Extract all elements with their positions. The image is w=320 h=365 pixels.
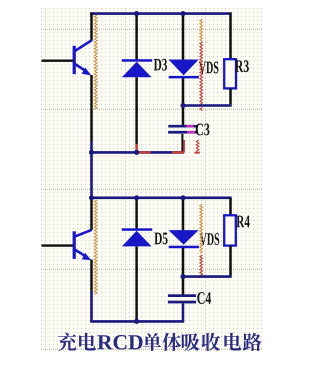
node: top rail / D3 junction [134,11,139,16]
wire: top rail (cell 2) [90,197,231,200]
resistor R4 box [224,215,236,245]
wire: D3 branch upper (cell 1) [135,12,138,59]
wire: R3 top lead [229,12,232,59]
fine grid accent rows/columns [41,29,263,31]
node: rail / D5 junction [134,195,139,200]
wire: Q1 emitter pin down [90,75,93,141]
label VDS (cell 1) [199,62,206,74]
wire: red highlighted segment above mid-rail junction [135,144,138,150]
snubber diode body (pointing down, cell 1) [169,60,199,76]
capacitor C3 bottom plate [168,131,197,134]
label D5 [154,233,161,245]
wire: Q1 base stub [42,60,74,62]
snubber diode body (pointing down, cell 2) [169,230,199,245]
transistor Q2 emitter arrow [82,253,91,260]
wire: snubber diode to mid node [182,78,185,104]
wire: Q1 collector pin [90,12,93,40]
diode D3 cathode bar [122,59,152,62]
capacitor C4 bottom plate [168,301,196,304]
node: D3 / mid rail junction [134,150,139,155]
label R4 [236,216,244,228]
schematic sheet with dotted grid [41,8,263,352]
node: rail / link junction (cell 2) [89,195,94,200]
wire: D5 branch upper (cell 2) [135,198,138,229]
label C4 [197,292,204,304]
transistor Q1 (NPN) base bar [73,46,76,74]
red squiggle stub above mid rail [196,140,199,151]
snubber diode anode bar (cell 2) [169,246,199,249]
transistor Q2 emitter stroke [75,250,86,257]
wire: D5 branch lower [135,247,138,321]
node: top rail / VDS branch junction [181,11,186,16]
title: 充电RCD单体吸收电路 [58,333,76,351]
node: D5 / bottom rail junction [134,319,139,324]
wire: C4 top lead [182,277,185,295]
node: snubber mid junction (cell 2) [181,274,186,279]
orange/red waveform squiggle labelled VDS (cell 2) [200,204,203,254]
wire: mid horizontal (snubber node, cell 2) [182,275,232,278]
wire: VDS diode branch upper (cell 1) [182,12,185,59]
label C3 [196,124,203,136]
transistor Q1 emitter arrow [82,68,92,76]
label D3 [154,59,161,71]
orange waveform squiggle near Q1 (VCE ripple) [94,15,97,109]
diode D5 cathode bar [122,228,152,231]
resistor R3 box [224,59,236,88]
node: rail / snubber branch junction (cell 2) [181,195,186,200]
transistor Q2 (NPN) base bar [73,231,76,259]
transistor Q2 collector stroke [75,230,92,237]
wire: Q2 base stub [42,244,74,246]
transistor Q1 emitter stroke [75,64,86,71]
wire: R4 bottom lead [229,246,232,276]
wire: R4 top lead [229,198,232,216]
orange waveform squiggle near Q2 [94,200,97,294]
label VDS (cell 2) [200,233,207,245]
wire: R3 bottom lead [229,88,232,104]
wire: mid horizontal (snubber node, cell 1) [182,104,232,107]
wire: D3 branch lower [135,77,138,144]
wire: C4 bottom lead [182,303,185,321]
wire: C3 bottom lead (highlighted red) [181,134,183,151]
wire: bottom rail (cell 2) [90,320,184,323]
wire: C3 top lead [182,106,185,126]
wire: top rail (cell 1) [90,12,231,15]
transistor Q1 collector stroke [75,40,92,51]
wire: mid rail (cell 1) [90,151,184,154]
wire: red highlighted bits on mid rail [139,151,151,153]
wire: Q2 collector pin [90,198,93,230]
wire: Q2 emitter pin down [90,260,93,292]
wire: snubber diode to mid node (cell 2) [182,248,185,275]
diode D5 body (pointing up) [122,231,152,247]
node: snubber mid junction (cell 1) [181,103,186,108]
wire: VDS diode branch upper (cell 2) [182,198,185,230]
label R3 [235,60,243,72]
orange/red waveform squiggle labelled VDS (cell 1) [200,19,203,41]
node: emitter / mid rail junction [89,150,94,155]
wire: link between cell 1 and cell 2 [90,152,93,197]
snubber diode anode bar (cell 1) [169,76,199,79]
diode D3 body (pointing up) [122,62,152,78]
capacitor C4 top plate [168,294,196,297]
capacitor C3 top plate [168,125,196,128]
junction dots overlay [134,11,139,16]
